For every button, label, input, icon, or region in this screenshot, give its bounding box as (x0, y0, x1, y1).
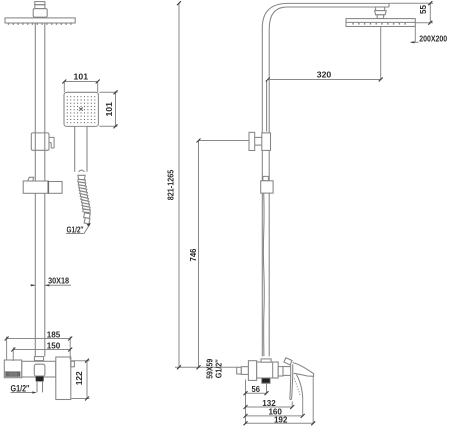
svg-text:G1/2″: G1/2″ (67, 225, 84, 235)
svg-text:56: 56 (252, 384, 261, 394)
svg-text:821-1265: 821-1265 (167, 169, 176, 200)
svg-text:G1/2″: G1/2″ (214, 359, 223, 378)
svg-text:59X59: 59X59 (205, 358, 214, 378)
svg-text:320: 320 (317, 70, 332, 80)
svg-text:200X200: 200X200 (419, 34, 447, 44)
svg-text:55: 55 (419, 4, 428, 14)
svg-text:101: 101 (74, 72, 89, 82)
svg-text:122: 122 (74, 371, 84, 385)
svg-text:101: 101 (104, 102, 114, 117)
svg-text:185: 185 (47, 330, 61, 340)
svg-text:746: 746 (189, 248, 198, 262)
svg-text:G1/2″: G1/2″ (11, 383, 30, 394)
svg-text:150: 150 (47, 341, 61, 351)
svg-text:30X18: 30X18 (48, 276, 69, 286)
svg-text:192: 192 (274, 415, 288, 425)
